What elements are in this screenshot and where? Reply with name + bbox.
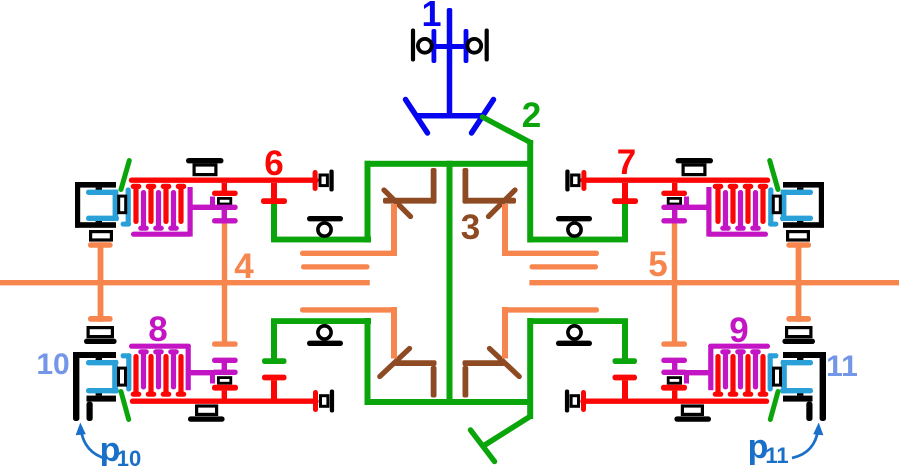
pinion on lower shaft right (red) (613, 375, 638, 402)
free-wheel bearing block on shaft 6 gear (black) (210, 197, 231, 206)
carrier 2 bottom rail (green horizontal) (365, 399, 534, 405)
frame bearing upper (black bar and roller) (307, 216, 343, 236)
carrier 2 top rail (green horizontal) (365, 161, 534, 167)
free-wheel bearing block lower right (black outlined) (668, 375, 689, 384)
sensor lever upper-right (green diagonal) (770, 161, 778, 190)
clutch 8 outer plates (red) (131, 354, 187, 397)
bevel pinion on shaft 1 (blue) (406, 100, 494, 134)
carrier gear link upper right (green) (528, 204, 628, 242)
clutch outer plates on shaft 7 (red) (713, 184, 769, 224)
bearing on shaft 1, right (black race bar and ball) (467, 29, 488, 62)
svg-text:10: 10 (36, 348, 69, 381)
svg-text:8: 8 (148, 310, 167, 349)
coupling sleeve lower-left (cyan bar with foot) (121, 353, 132, 391)
svg-text:3: 3 (461, 208, 480, 247)
axle shaft left segment (orange horizontal) (0, 280, 370, 285)
sensor lever lower-right (green diagonal) (770, 392, 778, 420)
bevel gear 3 upper-right (brown) (463, 168, 517, 217)
pinion on shaft 7 (red) (612, 183, 638, 204)
sensor lever lower-left (green diagonal) (121, 392, 129, 420)
axle coupling upper-left (cyan) (86, 190, 119, 221)
shaft below 8 (red horizontal) (133, 399, 317, 404)
side bevel gear 4 (orange vertical and rail, lower) (300, 307, 397, 359)
axle coupling lower-left (cyan) (86, 360, 119, 393)
svg-text:11: 11 (765, 443, 788, 466)
coupling sleeve upper-right (cyan bar with foot) (768, 187, 778, 226)
vertical shaft 5 (orange, upper half) (672, 224, 677, 343)
axle coupling lower-right (cyan) (780, 360, 813, 393)
vertical shaft 4 (orange, upper half) (222, 224, 227, 343)
hub support column upper-left (black block, orange tee) (88, 232, 113, 317)
carrier 2 bottom rail to gear right (green horizontal) (528, 318, 628, 324)
carrier 2 bottom rail to gear (green horizontal) (271, 318, 371, 324)
clutch 9 inner plates and drum (magenta) (685, 344, 770, 391)
wheel hub housing upper-left (black bracket) (75, 182, 116, 228)
frame mount above shaft 6 (black table) (186, 158, 224, 175)
frame mount below lower shaft (black table) (188, 406, 225, 422)
vertical shaft 5 lower rim (orange) (661, 341, 687, 346)
pinion on lower shaft (red) (262, 375, 287, 402)
clutch inner plates and drum on shaft 7 (magenta) (685, 187, 768, 237)
gear on lower shaft right (red hub and rim) (661, 385, 687, 399)
clutch output gear upper (magenta rims and hub, right) (661, 205, 687, 224)
clutch 8 output gear lower (magenta rims and hub) (212, 358, 238, 375)
frame bearing lower (black roller and bar) (307, 326, 343, 346)
differential cross shaft (green vertical centre) (447, 161, 453, 405)
label p11 with leader arrow (748, 423, 824, 466)
vertical shaft 4 lower rim (orange) (212, 341, 238, 346)
free-wheel bearing block on shaft 7 gear (black) (668, 197, 689, 206)
wheel hub housing upper-right (black bracket) (783, 182, 824, 228)
bevel gear 3 upper-left (brown) (383, 168, 437, 217)
carrier 2 right post (green vertical) (527, 140, 533, 243)
output housing 11 (black bracket) (783, 352, 826, 421)
carrier gear link lower (green) (262, 321, 287, 364)
bevel gear 3 lower-left (brown) (380, 349, 437, 398)
svg-text:9: 9 (729, 311, 748, 350)
bevel gear 3 lower-right (brown) (463, 349, 520, 398)
side bevel gear 5 (orange vertical and rail, lower) (502, 307, 599, 359)
gear on shaft 6 (red hub and rim) (212, 183, 238, 196)
frame mount above shaft 7 (black table) (676, 158, 714, 175)
coupling sleeve lower-right (cyan bar with foot) (768, 353, 779, 391)
carrier gear link lower right (green) (613, 321, 638, 364)
bearing block upper-left (black outlined) (119, 196, 126, 213)
label p10 with leader arrow (76, 423, 142, 466)
shaft 2 bevel link (green diagonal from bevel gear) (483, 117, 531, 143)
clutch 9 output gear lower (magenta rims and hub) (661, 358, 687, 375)
shaft 6 end bearing (red flange, block, frame bar) (313, 170, 334, 192)
gear on lower shaft (red hub and rim) (212, 385, 238, 399)
free-wheel bearing block lower (black outlined) (210, 375, 231, 384)
side bevel gear 4 (orange vertical and rail, upper) (300, 204, 397, 256)
clutch outer plates on shaft 6 (red) (131, 184, 187, 224)
carrier 2 bottom-left post (green vertical) (365, 318, 371, 405)
carrier 2 left post (green vertical) (365, 161, 371, 243)
gear on shaft 7 (red hub and rim) (661, 183, 687, 196)
svg-text:2: 2 (522, 96, 541, 135)
sensor lever upper-left (green diagonal) (121, 161, 129, 190)
bearing block lower-right (black outlined) (774, 368, 781, 385)
bearing block lower-left (black outlined) (119, 368, 126, 385)
clutch 9 outer plates (red) (713, 354, 769, 397)
bearing on shaft 1, left (black race bar and ball) (411, 29, 432, 62)
svg-text:1: 1 (421, 0, 441, 34)
output housing 10 (black bracket) (73, 352, 116, 421)
coupling sleeve upper-left (cyan bar with foot) (121, 187, 131, 226)
pinion on shaft 6 (red) (261, 183, 287, 204)
frame bearing lower right (black roller and bar) (556, 326, 592, 346)
lower shaft end bearing right (red flange, block, frame bar) (565, 390, 586, 413)
spline rail 4 upper short (orange) (301, 264, 370, 269)
svg-text:11: 11 (826, 350, 858, 383)
input shaft 1 (vertical blue shaft) (447, 8, 453, 117)
side bevel gear 5 (orange vertical and rail, upper) (502, 204, 599, 256)
svg-text:6: 6 (264, 144, 283, 183)
clutch inner plates and drum on shaft 6 (magenta) (131, 187, 214, 237)
shaft 7 end bearing (red flange, block, frame bar) (565, 170, 586, 192)
axle coupling upper-right (cyan) (780, 190, 813, 221)
frame mount below lower shaft right (black table) (674, 406, 711, 422)
lower shaft end bearing (red flange, block, frame bar) (313, 390, 334, 413)
carrier gear link upper (green) (271, 204, 371, 242)
shaft 1 bearing collar (blue crossbar and ticks) (432, 29, 469, 63)
clutch output gear upper (magenta rims and hub) (212, 205, 238, 224)
clutch 8 inner plates and drum (magenta) (129, 344, 214, 391)
svg-text:4: 4 (234, 247, 254, 286)
shaft 2 output tail (green diagonal with end bar) (471, 417, 531, 462)
shaft 6 (red horizontal) (132, 177, 317, 182)
axle shaft right segment (orange horizontal) (529, 280, 899, 285)
svg-text:7: 7 (617, 143, 636, 182)
carrier 2 bottom-right post (green vertical) (527, 318, 533, 419)
hub support column lower-right (orange tee, black block and bar) (782, 316, 815, 344)
bearing block upper-right (black outlined) (773, 196, 780, 213)
shaft 7 (red horizontal) (583, 177, 768, 182)
svg-text:5: 5 (648, 245, 667, 284)
hub support column lower-left (orange tee, black block and bar) (84, 316, 117, 344)
shaft below 9 (red horizontal) (583, 399, 767, 404)
spline rail 5 upper short (orange) (530, 264, 599, 269)
svg-text:10: 10 (117, 446, 141, 466)
hub support column upper-right (black block, orange tee) (786, 232, 811, 317)
frame bearing upper right (black bar and roller) (556, 216, 592, 236)
